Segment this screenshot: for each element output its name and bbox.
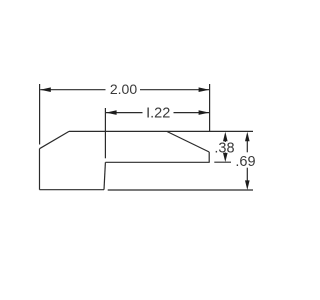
part bottom edge: [40, 189, 105, 191]
arrowhead 2.00 right: [199, 87, 210, 92]
svg-text:.69: .69: [235, 154, 255, 170]
part tip end vertical edge: [208, 152, 210, 162]
part top edge plus top extension line to .38/.69: [69, 130, 253, 132]
extension line bottom right (for .69): [108, 189, 253, 191]
arrowhead 1.22 left: [106, 110, 117, 115]
part top-left chamfer: [40, 131, 70, 148]
dimension line 2.00 right segment: [140, 89, 209, 91]
extension line underside right (for .38): [214, 161, 231, 163]
dimension line .38 vertical lower stub: [224, 153, 226, 157]
part tip slant edge: [167, 132, 209, 153]
svg-text:.38: .38: [214, 141, 234, 157]
extension line middle (for 1.22): [104, 108, 106, 158]
arrowhead .69 down: [245, 180, 250, 190]
svg-text:I.22: I.22: [146, 105, 170, 121]
svg-text:2.00: 2.00: [110, 81, 137, 97]
dimension line .69 vertical lower segment: [246, 168, 248, 182]
extension line right (for 2.00 and 1.22): [209, 84, 211, 132]
extension line left (for 2.00): [39, 84, 41, 145]
dimension line .69 vertical upper segment: [246, 139, 248, 152]
arrowhead .38 down: [223, 153, 228, 162]
arrowhead 1.22 right: [199, 110, 210, 115]
dimension line .38 vertical upper stub: [224, 138, 226, 142]
dimension line 1.22 left segment: [106, 112, 143, 114]
part left edge: [39, 149, 41, 190]
dimension line 1.22 right segment: [174, 112, 210, 114]
part tongue underside edge: [105, 161, 209, 163]
dimension line 2.00 left segment: [40, 89, 105, 91]
arrowhead .38 up: [223, 132, 228, 142]
part step edge: [104, 162, 105, 189]
arrowhead .69 up: [245, 132, 250, 142]
arrowhead 2.00 left: [40, 87, 51, 92]
